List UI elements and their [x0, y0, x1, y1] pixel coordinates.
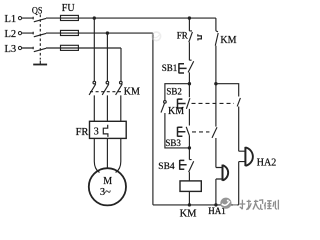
SB2 linkage dashed to HA2 contact [192, 102, 235, 104]
SB1 actuator E [179, 63, 187, 73]
pushbutton SB2 (NO) [186, 84, 190, 126]
svg-text:3: 3 [94, 126, 99, 137]
svg-text:SB3: SB3 [165, 138, 181, 148]
pushbutton SB1 (NC stop) [188, 60, 194, 83]
wire motor branch phase B drop [106, 33, 108, 81]
buzzer HA2 [239, 151, 245, 205]
SB3 linkage dashed to HA1 contact [192, 131, 209, 133]
svg-text:FR: FR [177, 30, 188, 40]
node L2 terminal [18, 31, 21, 34]
faint watermark ghost [152, 32, 161, 41]
pushbutton SB4 (NC) [189, 148, 194, 181]
fuse FU1 [61, 15, 79, 20]
wire to HA2 branch [216, 84, 239, 97]
svg-text:SB2: SB2 [166, 86, 182, 96]
node L3 terminal [18, 46, 21, 49]
contact SB3-linked (HA1 branch) [212, 84, 217, 168]
wire control left return [152, 33, 154, 205]
node junction coil-bus [188, 203, 191, 206]
wire latch sub-branch [165, 84, 190, 148]
SB4 actuator E [180, 160, 187, 170]
wire contacts to FR box [94, 95, 121, 121]
svg-text:3~: 3~ [100, 187, 111, 198]
svg-text:KM: KM [168, 106, 184, 117]
watermark logo [220, 198, 237, 209]
coil KM [180, 181, 201, 192]
wire L2 phase line [22, 32, 153, 34]
contact SB2-linked (HA2 branch) [237, 98, 240, 151]
svg-text:FR: FR [76, 127, 89, 138]
KM main contacts linkage dashed [90, 91, 123, 93]
buzzer HA1 [216, 168, 222, 205]
QS linkage dashed [39, 15, 41, 60]
wire motor branch phase C drop [120, 48, 122, 81]
wire right latch branch top [215, 18, 217, 31]
QS handle bar [33, 64, 47, 66]
svg-text:L1: L1 [5, 14, 17, 25]
switch QS pole 2 [33, 32, 46, 37]
contactor KM main contact 2 [106, 81, 109, 84]
wire FR box to motor [94, 138, 121, 172]
FR contact hook symbol [198, 34, 202, 40]
pushbutton SB3 (NO) [186, 127, 189, 148]
thermal relay FR NC contact (control) [189, 18, 193, 60]
contactor KM aux contact (latch, top right) [215, 31, 218, 84]
svg-text:SB1: SB1 [162, 63, 178, 73]
FR heater element symbol [103, 125, 108, 137]
contactor KM aux contact (parallel to SB2/SB3) [164, 101, 167, 104]
contactor KM main contact 3 [120, 81, 123, 84]
thermal relay FR heater box [90, 121, 127, 138]
node L1 terminal [18, 17, 21, 20]
node junction HA1-bus [214, 203, 217, 206]
svg-text:SB4: SB4 [158, 162, 175, 172]
svg-text:FU: FU [62, 3, 76, 14]
svg-text:QS: QS [32, 7, 43, 17]
svg-text:KM: KM [124, 86, 140, 97]
wire bottom bus [153, 204, 239, 206]
wire L1 phase line [22, 17, 216, 19]
wire L3 phase line [22, 47, 121, 49]
node junction latch split upper [188, 82, 191, 85]
svg-text:L3: L3 [5, 44, 17, 55]
svg-text:KM: KM [180, 209, 198, 220]
svg-text:L2: L2 [5, 29, 17, 40]
node junction control tap [188, 16, 191, 19]
fuse FU3 [61, 45, 79, 50]
SB3 actuator E [178, 127, 186, 137]
watermark text 技成培训 [240, 200, 279, 210]
svg-text:HA2: HA2 [257, 157, 276, 168]
switch QS pole 3 [33, 47, 46, 52]
node junction latch rejoin [188, 146, 191, 149]
motor M1 circle [89, 168, 126, 205]
node junction L1 motor tap [93, 16, 96, 19]
svg-text:M: M [103, 176, 112, 187]
switch QS pole 1 [33, 17, 46, 22]
svg-text:KM: KM [220, 35, 236, 46]
fuse FU2 [61, 30, 79, 35]
node junction L2 motor tap [106, 31, 109, 34]
wire motor branch phase A drop [93, 18, 95, 81]
node junction latch/HA2 split [214, 82, 217, 85]
SB2 actuator E [178, 99, 186, 109]
contactor KM main contact 1 [93, 81, 96, 84]
